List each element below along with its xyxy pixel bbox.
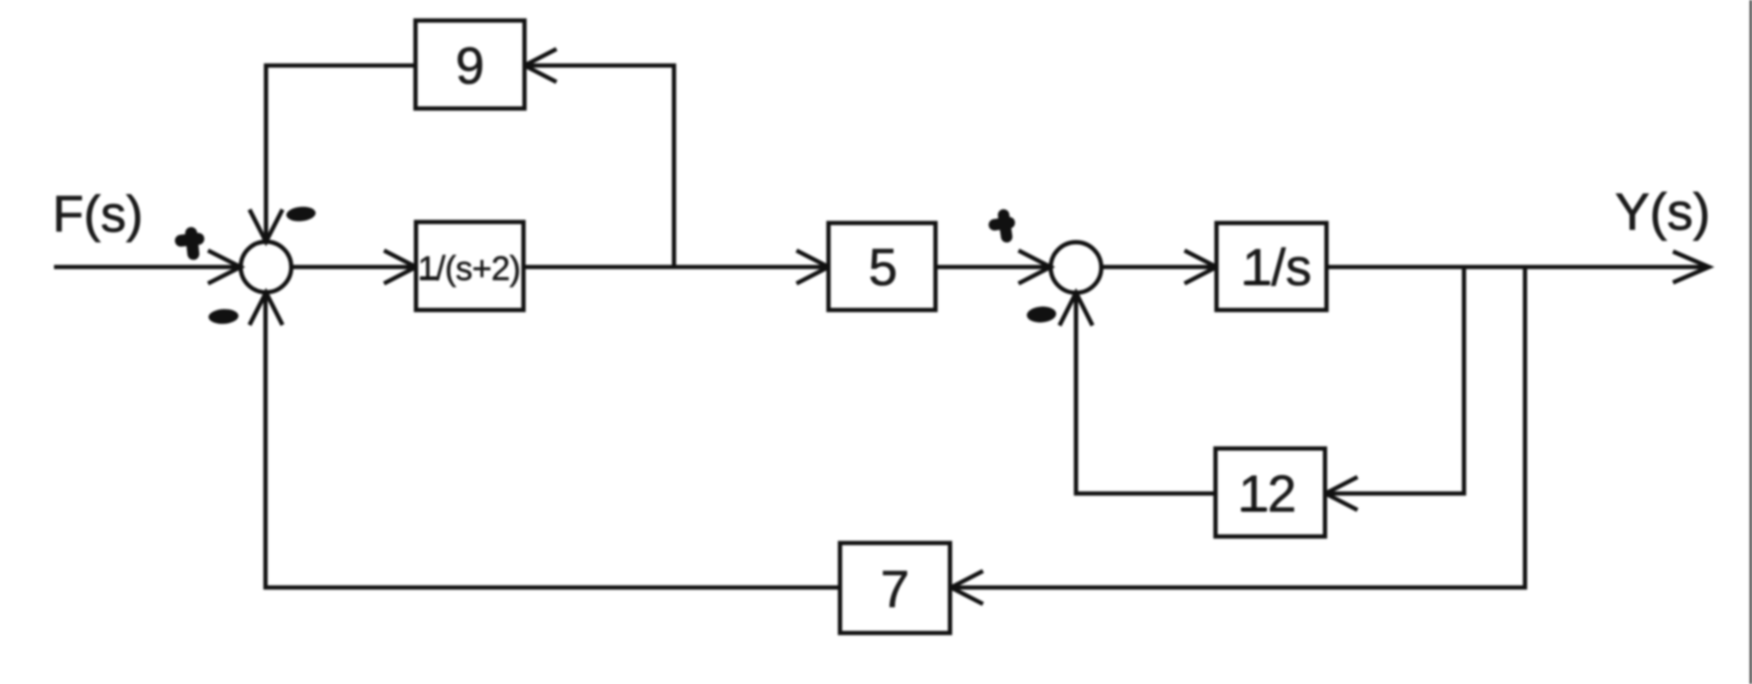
junction node tap to block 9 loop (527, 66, 675, 268)
wire block 7 output to S1 bottom (266, 294, 841, 588)
block G3 integrator 1/s (1217, 223, 1327, 310)
summing junction S2 (1051, 242, 1102, 293)
plus sign at S1 input (180, 232, 200, 255)
svg-text:F(s): F(s) (53, 186, 144, 243)
minus sign at S1 top input (286, 206, 317, 223)
wire S2 to block 1/s (1102, 265, 1215, 269)
wire block 12 output to S2 bottom (1076, 294, 1216, 494)
foot serif of digit 1 in 1/s (1244, 281, 1270, 285)
arrowhead into block 12 right side (1326, 477, 1358, 510)
summing junction S1 (241, 242, 292, 293)
foot serif of digit 1 in 12 (1241, 508, 1267, 512)
wire block 1/s to output Y(s) (1327, 265, 1708, 269)
block H3 gain 7 (840, 543, 950, 633)
foot serif of digit 1 in 1/(s+2) (420, 276, 437, 280)
output arrowhead Y(s) (1673, 252, 1709, 283)
wire tap to block 7 feedback (953, 267, 1525, 588)
svg-text:5: 5 (869, 239, 898, 297)
block G1 1/(s+2) (416, 222, 524, 310)
arrowhead into S1 from top (250, 210, 283, 242)
wire tap to block 12 feedback (1328, 267, 1465, 494)
block H2 gain 12 (1216, 449, 1326, 537)
svg-text:1/s: 1/s (1242, 239, 1311, 297)
svg-text:12: 12 (1239, 466, 1297, 524)
wire block 9 output to S1 top (266, 66, 416, 241)
wire block 1/(s+2) to block 5 (524, 265, 828, 269)
arrowhead into S2 from bottom (1060, 293, 1093, 326)
arrowhead into block 7 right side (951, 571, 983, 604)
block H1 gain 9 (416, 21, 525, 109)
arrowhead into block 1/(s+2) (384, 251, 416, 284)
wire S1 to block 1/(s+2) (291, 265, 414, 269)
svg-text:9: 9 (456, 38, 485, 96)
arrowhead into block 5 (797, 251, 829, 284)
scan edge border right (1750, 0, 1752, 684)
minus sign at S2 bottom input (1026, 306, 1056, 324)
wire input F(s) to summing junction S1 (54, 265, 239, 269)
arrowhead into block 9 right side (525, 49, 557, 82)
minus sign at S1 bottom input (208, 308, 239, 324)
plus sign at S2 input (993, 214, 1011, 238)
wire block 5 to summing junction S2 (936, 265, 1050, 269)
block G2 gain 5 (829, 223, 936, 310)
svg-text:1/(s+2): 1/(s+2) (418, 250, 521, 288)
svg-text:Y(s): Y(s) (1615, 184, 1710, 242)
arrowhead into S2 from left (1019, 251, 1051, 284)
arrowhead into S1 from bottom (250, 293, 283, 326)
arrowhead into block 1/s (1185, 251, 1217, 284)
arrowhead into S1 from left (208, 251, 241, 284)
svg-text:7: 7 (881, 561, 910, 619)
